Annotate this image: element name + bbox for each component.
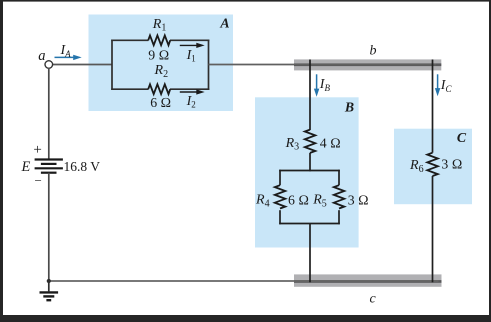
- svg-text:3 Ω: 3 Ω: [348, 192, 369, 207]
- wire: box A to bus bar b: [209, 64, 437, 66]
- resistor R2: [148, 63, 171, 110]
- resistor R3: [285, 130, 341, 153]
- region highlight C: [394, 129, 472, 205]
- svg-text:+: +: [33, 142, 41, 158]
- current arrow IA: [55, 43, 82, 60]
- wire: R6 to bus bar c: [432, 176, 434, 282]
- wire: R4/R5 box bottom: [279, 223, 340, 225]
- svg-text:6 Ω: 6 Ω: [150, 95, 171, 110]
- svg-text:B: B: [344, 100, 354, 115]
- svg-text:9 Ω: 9 Ω: [148, 48, 169, 63]
- svg-text:c: c: [370, 291, 377, 306]
- wire: box A top branch leads: [111, 39, 209, 41]
- resistor R6: [409, 153, 462, 176]
- wire: box A left vertical: [111, 40, 113, 91]
- bus bar c: [294, 274, 442, 286]
- wire: R4 leads: [279, 170, 281, 225]
- wire: battery to bottom junction: [48, 173, 50, 281]
- resistor R1: [148, 17, 170, 63]
- svg-text:C: C: [457, 130, 467, 145]
- resistor R5: [312, 185, 368, 209]
- current arrow I2: [180, 89, 205, 109]
- current arrow IC: [435, 74, 453, 96]
- svg-text:4 Ω: 4 Ω: [320, 135, 341, 150]
- wire: box A right vertical: [208, 40, 210, 91]
- ground: [40, 281, 59, 300]
- svg-text:a: a: [38, 48, 45, 64]
- wire: bottom return wire through bus bar c: [49, 280, 439, 282]
- node c label: [370, 291, 377, 306]
- node b label: [370, 43, 377, 58]
- wire: node a to parallel box A: [52, 64, 112, 66]
- svg-text:3 Ω: 3 Ω: [441, 156, 462, 171]
- region highlight B: [255, 97, 359, 247]
- battery E 16.8 V: [21, 142, 101, 188]
- svg-text:E: E: [21, 159, 31, 175]
- wire: node a down to battery: [48, 68, 50, 160]
- svg-text:A: A: [219, 16, 229, 31]
- svg-text:b: b: [370, 43, 377, 58]
- wire: box A bottom branch leads: [111, 88, 209, 90]
- svg-text:−: −: [35, 173, 42, 188]
- current arrow I1: [180, 43, 205, 64]
- junction node at ground: [47, 279, 51, 283]
- svg-text:6 Ω: 6 Ω: [288, 192, 309, 207]
- wire: branch C stem from bus bar b: [432, 60, 434, 153]
- resistor R4: [255, 185, 309, 209]
- region highlight A: [89, 15, 234, 112]
- svg-text:16.8 V: 16.8 V: [64, 159, 101, 174]
- wire: R3 to parallel box: [309, 153, 311, 171]
- wire: R4/R5 box top: [279, 170, 340, 172]
- current arrow IB: [314, 74, 331, 97]
- wire: branch B stem from bus bar b: [309, 60, 311, 131]
- wire: R5 leads: [338, 170, 340, 225]
- bus bar b: [294, 59, 441, 70]
- node a: [38, 48, 52, 68]
- wire: branch B stem to bus bar c: [309, 224, 311, 283]
